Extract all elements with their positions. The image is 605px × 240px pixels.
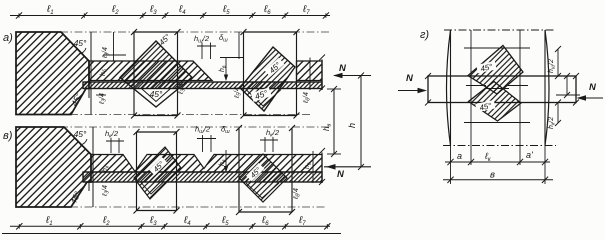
bottom border line	[2, 233, 341, 235]
fig v: weld diamond 2 (hatched)	[239, 154, 287, 202]
svg-text:ℓ2: ℓ2	[102, 215, 110, 227]
fig a: top axis dash-dot	[60, 31, 331, 33]
fig a: strip left end notch	[83, 82, 89, 98]
fig g: weld zone tick lines	[464, 48, 530, 123]
fig a: weld diamond 1 (hatched above strip)	[120, 41, 192, 107]
fig g: 45 labels	[476, 61, 497, 74]
fig v: h_v arrow at flush joint	[219, 150, 228, 173]
fig g: right side h_sh/2 dims	[555, 46, 580, 126]
svg-text:в: в	[490, 170, 495, 181]
fig v: upper band with notches (hatched)	[91, 155, 322, 173]
fig v: box around weld 2	[236, 125, 295, 215]
fig v: bottom axis dash-dot	[70, 206, 325, 208]
svg-text:ℓ5: ℓ5	[221, 215, 229, 227]
fig g: bar (plan view)	[428, 76, 576, 103]
svg-text:ℓк: ℓк	[484, 151, 492, 163]
svg-text:h: h	[347, 123, 357, 128]
svg-text:45°: 45°	[74, 129, 87, 139]
fig a: upper band left segment (hatched)	[89, 61, 212, 81]
svg-text:ℓ4: ℓ4	[183, 215, 191, 227]
svg-text:ℓ3/4: ℓ3/4	[102, 47, 111, 59]
svg-text:ℓ1: ℓ1	[45, 215, 53, 227]
fig g: dimension line a, l_k, a'	[445, 159, 550, 165]
fig v: h_k/2 dim left	[106, 138, 124, 153]
svg-text:hк/2: hк/2	[266, 128, 280, 139]
svg-text:ℓ3/4: ℓ3/4	[102, 185, 111, 197]
fig g: outer rectangle	[443, 30, 556, 146]
fig v: weld joint line at block	[92, 127, 94, 207]
fig g: lower weld rhombus (hatched)	[469, 82, 522, 122]
svg-text:ℓ7: ℓ7	[302, 4, 310, 16]
svg-text:hш/2: hш/2	[195, 125, 211, 136]
svg-text:hк/2: hк/2	[548, 117, 557, 129]
svg-text:a': a'	[526, 150, 533, 160]
svg-text:hш/2: hш/2	[548, 59, 557, 73]
svg-text:ℓ3: ℓ3	[149, 4, 157, 16]
fig v: bar right end	[313, 148, 325, 185]
svg-text:N: N	[589, 82, 597, 93]
fig a: bar right end	[310, 55, 325, 92]
svg-text:a): a)	[3, 32, 13, 44]
fig a: l3/4 dim at block (rotated)	[100, 32, 126, 76]
fig v: h_k/2 dim right	[260, 137, 278, 152]
bottom dimension line	[10, 223, 330, 229]
fig g: dimension line v (total)	[443, 177, 553, 183]
fig v: base metal block (hatched)	[16, 127, 91, 207]
svg-text:ℓ6: ℓ6	[263, 4, 271, 16]
svg-text:N: N	[337, 169, 345, 180]
fig v: flush joint dims h_sh/2 delta_sh	[197, 135, 216, 152]
svg-text:hш/2: hш/2	[194, 34, 210, 45]
svg-text:hк/2: hк/2	[105, 129, 119, 140]
fig a: bottom axis dash-dot	[70, 114, 312, 116]
svg-text:ℓ6/4: ℓ6/4	[293, 188, 302, 200]
svg-text:ℓ2: ℓ2	[111, 4, 119, 16]
top dimension labels l1-l7	[46, 4, 310, 16]
svg-text:в): в)	[3, 130, 13, 142]
fig g: flare curves	[447, 30, 550, 146]
fig a: weld joint line at block	[90, 32, 92, 115]
svg-text:ℓ7: ℓ7	[298, 215, 306, 227]
svg-text:ℓ6/4: ℓ6/4	[303, 92, 312, 104]
fig a: box around weld 1	[131, 29, 181, 119]
svg-text:ℓ3: ℓ3	[149, 215, 157, 227]
svg-text:ℓ5: ℓ5	[222, 4, 230, 16]
fig g: force N arrow left	[398, 73, 427, 93]
svg-text:ℓ3/4: ℓ3/4	[99, 93, 108, 105]
fig a: thin strip (hatched)	[83, 82, 322, 89]
fig v: top axis dash-dot	[60, 126, 330, 128]
fig a: base metal block (hatched)	[16, 32, 89, 115]
svg-text:N: N	[406, 73, 414, 84]
svg-text:45°: 45°	[150, 89, 163, 99]
fig g: force N arrow right	[577, 82, 604, 101]
fig v: force N arrow	[324, 164, 371, 180]
right vertical dimension h	[347, 73, 364, 171]
svg-text:45°: 45°	[74, 38, 87, 48]
svg-text:г): г)	[420, 29, 429, 41]
fig a: 45 labels on diamond 2	[265, 58, 285, 78]
fig a: h_v arrow at flush joint	[219, 58, 228, 82]
top dimension line	[10, 12, 330, 18]
svg-text:a: a	[457, 151, 462, 161]
svg-text:δш: δш	[219, 33, 228, 44]
svg-text:ℓ4: ℓ4	[178, 4, 186, 16]
fig a: weld diamond 2 (hatched)	[240, 47, 295, 111]
fig a: force N arrow	[333, 63, 371, 78]
fig a: flush joint dims h_sh/2 and delta_sh	[197, 32, 244, 59]
fig v: weld diamond 1 (tilted, hatched)	[134, 147, 181, 199]
bottom dimension labels l1-l7	[45, 215, 306, 227]
fig v: thin strip (hatched)	[83, 172, 322, 182]
fig v: box around weld 1	[134, 129, 180, 214]
fig g: extension lines below	[451, 146, 546, 185]
svg-text:N: N	[339, 63, 347, 74]
fig g: upper weld rhombus (hatched)	[468, 46, 523, 95]
fig v: 45 label on diamond 1	[149, 157, 168, 176]
svg-text:ℓ6: ℓ6	[261, 215, 269, 227]
fig a: l3/4 dim below strip left	[96, 93, 108, 105]
fig v: strip left end notch	[83, 172, 89, 191]
svg-text:ℓ1: ℓ1	[46, 4, 54, 16]
fig a: box around weld 2	[241, 29, 300, 119]
right vertical dimension h_v	[322, 86, 341, 157]
fig a: upper band right segment (hatched)	[297, 61, 323, 81]
svg-text:δш: δш	[221, 125, 230, 136]
fig g: inner verticals	[471, 30, 520, 146]
